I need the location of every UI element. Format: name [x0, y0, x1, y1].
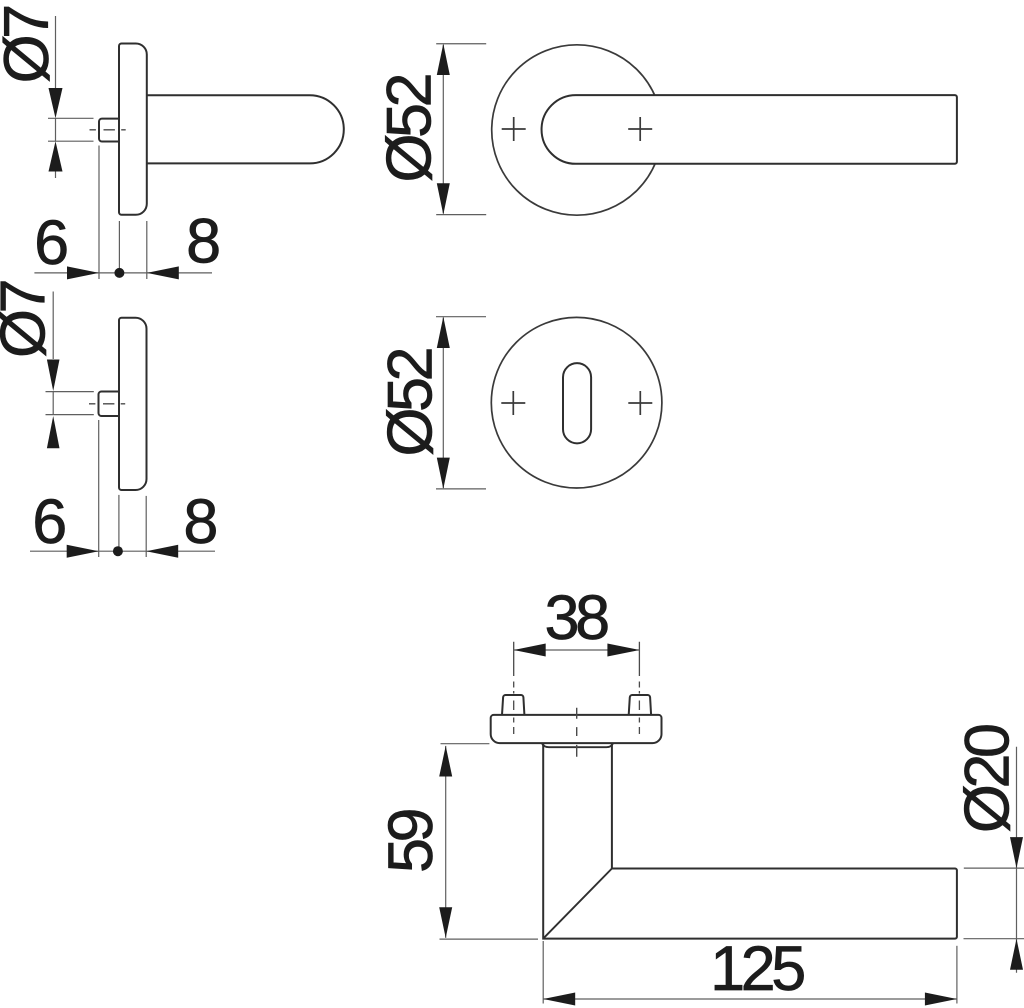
ext line rose-right — [145, 496, 147, 557]
dim Ø20 arrow down — [1010, 837, 1023, 868]
junction dot — [114, 268, 124, 278]
dim Ø20 arrow up — [1010, 939, 1023, 970]
lever grip front — [542, 95, 957, 164]
ext line rose-left — [118, 495, 120, 549]
rose disc — [492, 45, 662, 215]
dim Ø20 ext bottom — [964, 938, 1024, 940]
svg-text:Ø52: Ø52 — [375, 349, 445, 456]
dim 38 arrow left — [514, 644, 546, 657]
dim Ø52 tick top — [436, 316, 486, 318]
dim Ø52 tick top — [436, 43, 486, 45]
dim Ø52 line — [442, 318, 444, 489]
dim 125 ext left — [542, 941, 544, 1004]
screw post right — [629, 695, 651, 715]
dim 125 ext right — [956, 946, 958, 1004]
dim 38 arrow right — [607, 644, 639, 657]
screw post left — [502, 695, 524, 715]
dim Ø52 tick bottom — [436, 488, 486, 490]
screw mark right — [628, 117, 652, 141]
dim 125 arrow left — [543, 993, 575, 1006]
dim Ø52 tick bottom — [436, 214, 486, 216]
dim Ø52 arrow down — [437, 183, 450, 214]
dim Ø7 tail — [55, 172, 57, 179]
svg-text:Ø7: Ø7 — [0, 282, 59, 359]
svg-text:6: 6 — [34, 208, 67, 278]
dim Ø20 line — [1016, 747, 1018, 973]
dim Ø52 arrow up — [437, 317, 450, 348]
junction dot — [113, 546, 123, 556]
svg-text:8: 8 — [183, 487, 216, 557]
screw mark left — [501, 391, 525, 415]
plate centre line — [576, 708, 578, 757]
dim Ø7 arrow down — [47, 360, 60, 392]
ext line stub-left — [98, 146, 100, 280]
dim Ø7 line mid — [55, 118, 57, 141]
svg-text:Ø20: Ø20 — [953, 725, 1023, 833]
dim Ø52 arrow up — [437, 44, 450, 75]
dim Ø52 arrow down — [437, 458, 450, 489]
svg-text:Ø7: Ø7 — [0, 7, 62, 84]
stub centre line (dash-dot) — [89, 403, 125, 405]
ext line rose-left — [118, 221, 120, 272]
dim 8 arrow left — [147, 266, 179, 279]
keyhole slot — [563, 363, 591, 443]
escutcheon disc — [491, 317, 662, 488]
svg-text:38: 38 — [545, 583, 609, 653]
dim 6 arrow right — [67, 266, 99, 279]
dim Ø7 line mid — [52, 392, 54, 415]
dim 38 ext/centre line right — [638, 642, 640, 734]
dim 38 ext/centre line left — [513, 642, 515, 734]
dim Ø7 tick top — [46, 391, 94, 393]
dim 6 arrow right — [67, 545, 99, 558]
svg-text:8: 8 — [186, 207, 219, 277]
dim 6/8 line — [34, 272, 212, 274]
dim Ø7 line upper — [52, 292, 54, 360]
ext line rose-right — [146, 221, 148, 279]
dim Ø7 tick top — [48, 117, 94, 119]
lever grip (side profile, stadium) — [147, 95, 344, 163]
escutcheon plate (side profile) — [119, 318, 147, 490]
dim Ø7 arrow down — [49, 88, 63, 118]
dim Ø7 tick bottom — [46, 414, 94, 416]
dim 8 arrow left — [146, 545, 178, 558]
spindle stub — [99, 119, 119, 142]
svg-text:Ø52: Ø52 — [375, 75, 445, 182]
spindle stub — [99, 392, 120, 417]
screw mark left — [502, 117, 526, 141]
dim 59 tick bottom — [440, 938, 539, 940]
dim Ø7 line upper — [55, 16, 57, 88]
mitre joint line — [543, 869, 612, 939]
dim Ø7 tick bottom — [48, 140, 94, 142]
neck shoulder line — [542, 743, 613, 747]
screw mark right — [628, 391, 652, 415]
dim Ø52 line — [442, 45, 444, 214]
dim 59 line — [445, 746, 447, 938]
dim Ø7 arrow up — [47, 416, 60, 448]
dim 125 arrow right — [925, 993, 957, 1006]
rose plate (side profile) — [119, 44, 147, 215]
svg-text:6: 6 — [32, 487, 65, 557]
ext line stub-left — [98, 420, 100, 557]
dim 59 tick top — [441, 743, 490, 745]
dim 6/8 line — [30, 550, 215, 552]
neck and lever outline — [543, 743, 957, 939]
dim Ø7 arrow up — [49, 141, 63, 171]
rose plate — [491, 715, 662, 743]
dim Ø20 ext top — [964, 867, 1024, 869]
stub centre line (dash-dot) — [90, 129, 126, 131]
svg-text:59: 59 — [376, 810, 446, 874]
dim 38 line — [514, 649, 640, 651]
dim 59 arrow down — [439, 907, 452, 938]
dim 125 line — [543, 998, 957, 1000]
svg-text:125: 125 — [710, 934, 804, 1004]
dim 59 arrow up — [439, 746, 452, 777]
